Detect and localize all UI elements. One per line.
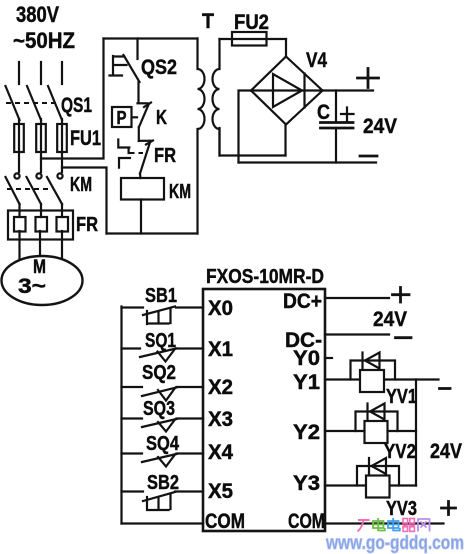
svg-text:Y3: Y3	[293, 472, 320, 495]
bridge diode cathode bar	[303, 74, 305, 108]
P to K dashed link	[132, 116, 137, 118]
wire bridge left vertex to minus rail	[239, 91, 252, 163]
wire phase L3 top	[61, 62, 63, 84]
wire Y3 row	[325, 484, 416, 486]
contact K arrow tick	[144, 103, 151, 108]
wire K to FR contact	[138, 127, 140, 141]
wire pole2 to FR	[40, 204, 42, 217]
FR contact arrow tick	[146, 141, 153, 145]
diode YV3 triangle	[372, 458, 387, 474]
solenoid YV3 box	[366, 476, 390, 498]
limit switch SQ4 fork	[158, 455, 175, 467]
svg-text:X0: X0	[208, 297, 233, 320]
thermal relay FR box	[8, 211, 73, 240]
contactor KM pole 1 blade	[6, 177, 20, 204]
contactor KM pole 2 blade	[27, 177, 42, 204]
watermark char qi (drawn)	[403, 519, 416, 532]
pushbutton SB2 contacts and head	[147, 495, 171, 510]
wire X0 row	[122, 306, 204, 308]
svg-text:T: T	[202, 10, 214, 33]
plus terminal symbol	[358, 69, 379, 88]
svg-text:3~: 3~	[18, 275, 46, 298]
FR heater element 2	[36, 217, 48, 232]
control loop bottom wire	[107, 232, 198, 234]
wire pole1 to FR	[18, 204, 20, 217]
fuse FU2	[232, 32, 267, 46]
wire heater2 to motor	[39, 231, 41, 257]
svg-text:X3: X3	[208, 408, 233, 431]
minus dash Y1 end	[440, 387, 451, 390]
diode YV2 bar	[366, 404, 368, 420]
limit switch SQ1 fork	[158, 350, 175, 362]
wire FR to KM coil	[139, 174, 142, 179]
wire phase L2 top	[40, 62, 42, 84]
contact K blade	[139, 104, 149, 127]
svg-text:SQ1: SQ1	[145, 330, 176, 352]
wire heater1 to motor	[18, 231, 20, 259]
pushbutton SB2 blade	[143, 492, 175, 501]
fuse FU1 pole 2	[36, 124, 46, 152]
svg-text:Y2: Y2	[293, 421, 320, 444]
wire feed L3 to control bottom	[62, 168, 107, 234]
FR contact top bar	[139, 140, 152, 142]
svg-text:SB1: SB1	[145, 285, 177, 307]
wire secondary top to bridge	[220, 38, 287, 40]
solenoid YV1 box	[360, 370, 384, 392]
svg-text:SQ3: SQ3	[143, 398, 175, 420]
contactor KM pole 1 contact circle	[14, 173, 19, 178]
svg-text:FXOS-10MR-D: FXOS-10MR-D	[206, 266, 324, 288]
FR contact hook upper	[118, 140, 129, 154]
flyback diode loop YV2	[356, 412, 398, 432]
svg-text:SQ4: SQ4	[146, 433, 180, 455]
svg-text:QS2: QS2	[141, 56, 177, 79]
control branch wire top	[136, 39, 138, 60]
svg-text:YV1: YV1	[386, 386, 417, 408]
plus terminal COM	[442, 502, 456, 515]
FR contact hook lower	[119, 158, 130, 168]
svg-text:380V: 380V	[16, 2, 59, 27]
wire to bridge top vertex	[285, 39, 287, 57]
fuse FU1 pole 1	[14, 124, 24, 152]
svg-text:YV3: YV3	[386, 498, 417, 520]
transformer T secondary winding	[213, 39, 220, 156]
wire X1 row	[122, 347, 204, 349]
solenoid YV2 box	[365, 421, 388, 443]
svg-text:SQ2: SQ2	[142, 362, 176, 384]
wire DC+ stub	[325, 297, 389, 299]
svg-text:FU1: FU1	[70, 127, 101, 150]
wire DC- stub	[325, 333, 389, 335]
wire X5 row	[122, 490, 204, 492]
svg-text:COM: COM	[205, 510, 245, 533]
wire feed L2 to control top	[41, 39, 104, 159]
svg-text:X1: X1	[208, 338, 233, 361]
limit switch SQ4 blade	[142, 454, 177, 462]
minus terminal DC	[396, 336, 412, 339]
wire bridge bottom vertex down	[284, 125, 286, 156]
watermark char wang (drawn)	[418, 519, 430, 532]
switch QS2 fixed contact F-shape	[110, 56, 127, 76]
wire COM right row	[325, 522, 444, 524]
limit switch SQ2 fork	[158, 388, 175, 401]
switch QS1 pole 2 blade	[27, 86, 41, 120]
svg-text:KM: KM	[169, 181, 191, 203]
svg-text:24V: 24V	[373, 308, 407, 331]
svg-text:www.go-gddq.com: www.go-gddq.com	[325, 533, 464, 554]
svg-text:X5: X5	[208, 480, 233, 503]
pushbutton SB1 contacts and head	[147, 309, 171, 324]
wire pole3 to FR	[61, 204, 63, 217]
capacitor C top lead	[335, 91, 337, 123]
coil KM rectangle	[121, 178, 164, 200]
svg-text:24V: 24V	[363, 115, 397, 138]
svg-text:X2: X2	[208, 376, 233, 399]
switch QS1 pole 1 blade	[6, 86, 20, 120]
wire KM coil to bottom	[140, 200, 142, 234]
plus terminal DC	[393, 288, 410, 303]
output rail wire	[415, 380, 417, 486]
switch QS1 pole 3 blade	[48, 86, 62, 120]
pressure element P box	[112, 107, 132, 127]
contact K fixed tick	[138, 102, 148, 104]
svg-text:K: K	[156, 107, 167, 129]
switch QS2 blade	[124, 55, 140, 82]
diode YV1 triangle	[365, 353, 380, 369]
capacitor C bottom lead	[335, 128, 337, 163]
svg-text:Y0: Y0	[293, 347, 320, 370]
svg-text:C: C	[317, 101, 330, 124]
svg-text:SB2: SB2	[147, 472, 179, 494]
wire Y1 row	[325, 378, 439, 380]
capacitor polarity plus	[341, 108, 354, 121]
contactor KM pole 2 contact circle	[36, 173, 41, 178]
fuse FU1 pole 3	[57, 124, 67, 152]
wire Y0 stub	[325, 357, 332, 359]
svg-text:Y1: Y1	[293, 371, 320, 394]
contactor KM pole 3 contact circle	[57, 173, 62, 178]
FR heater element 3	[57, 217, 69, 232]
limit switch SQ3 fork	[158, 420, 175, 432]
svg-text:P: P	[117, 108, 127, 128]
bridge diode horizontal line	[251, 89, 323, 91]
contactor KM pole 3 blade	[47, 177, 62, 204]
capacitor C plates	[321, 123, 354, 129]
motor M 3~ ellipse	[2, 256, 83, 305]
FR contact blade	[140, 141, 151, 174]
KM mechanical link dashed	[7, 188, 52, 190]
wire L1 through fuse	[18, 119, 20, 172]
svg-text:QS1: QS1	[61, 94, 92, 117]
wire X2 row	[122, 386, 204, 388]
wire Y2 row	[325, 430, 416, 432]
watermark char dian green (drawn)	[373, 518, 385, 531]
svg-text:KM: KM	[70, 174, 92, 196]
limit switch SQ1 blade	[140, 349, 176, 358]
svg-text:YV2: YV2	[384, 441, 416, 463]
pushbutton SB1 blade	[143, 307, 175, 316]
diode YV2 triangle	[370, 404, 385, 420]
wire phase L1 top	[18, 62, 20, 84]
transformer T primary winding	[198, 39, 205, 234]
wire X3 row	[122, 417, 204, 419]
watermark char dian blue (drawn)	[388, 518, 400, 531]
svg-text:DC+: DC+	[283, 290, 322, 313]
svg-text:~50HZ: ~50HZ	[13, 28, 75, 53]
svg-text:V4: V4	[306, 49, 327, 72]
minus rail wire	[239, 161, 377, 163]
flyback diode loop YV1	[351, 361, 396, 380]
watermark char guang (drawn)	[358, 520, 370, 532]
input common rail wire	[120, 307, 122, 524]
limit switch SQ3 blade	[142, 419, 177, 427]
wire L3 through fuse	[61, 119, 63, 172]
wire secondary bottom to bridge bottom	[220, 128, 286, 156]
bridge diode triangle	[273, 74, 302, 107]
wire X4 row	[122, 452, 204, 454]
diode YV3 bar	[368, 458, 370, 474]
wire heater3 to motor	[61, 231, 63, 259]
svg-text:FR: FR	[154, 145, 176, 167]
minus terminal dash	[360, 155, 377, 158]
flyback diode loop YV3	[357, 466, 399, 486]
QS1 mechanical link dashed	[6, 102, 58, 104]
svg-text:24V: 24V	[430, 440, 462, 463]
svg-text:FR: FR	[76, 214, 98, 236]
limit switch SQ2 blade	[142, 388, 177, 397]
wire QS2 to K	[137, 82, 139, 103]
wire L2 through fuse	[40, 119, 42, 172]
bridge rectifier V4 diamond	[251, 57, 323, 125]
PLC box FX0S-10MR-D	[203, 289, 325, 531]
svg-text:FU2: FU2	[234, 11, 269, 34]
wire plus output	[323, 89, 374, 91]
FR heater element 1	[14, 217, 26, 232]
FR contact dashed link	[130, 152, 144, 154]
diode YV1 bar	[361, 353, 363, 369]
svg-text:X4: X4	[208, 441, 233, 464]
svg-text:COM: COM	[288, 510, 325, 533]
control loop top wire	[104, 37, 198, 39]
wire COM bottom row	[122, 522, 204, 524]
